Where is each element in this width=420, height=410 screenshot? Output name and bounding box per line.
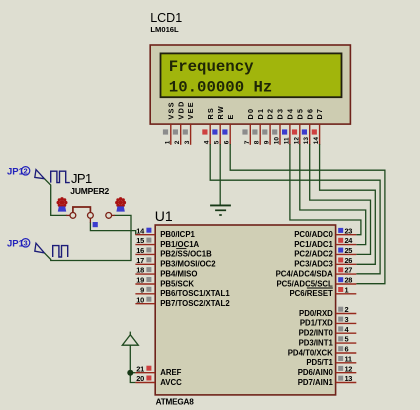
wire JP1(2) to jumper pin1: [44, 179, 66, 216]
U1 pin 11 PD5/T1: [306, 354, 356, 367]
U1 pin 9 PB6/TOSC1/XTAL1: [135, 285, 230, 298]
svg-text:PC5/ADC5/SCL: PC5/ADC5/SCL: [276, 279, 333, 288]
svg-text:10: 10: [274, 137, 281, 145]
svg-text:26: 26: [345, 256, 353, 265]
IC U1 ATMEGA8 value label: [156, 397, 195, 406]
svg-text:14: 14: [313, 137, 320, 145]
svg-text:D3: D3: [276, 108, 285, 120]
svg-text:20: 20: [136, 374, 144, 383]
svg-text:VDD: VDD: [176, 100, 185, 119]
svg-text:U1: U1: [155, 208, 173, 224]
U1 pin 6 PD4/T0/XCK: [288, 345, 357, 358]
IC U1 ATMEGA8 body: [155, 225, 335, 395]
svg-text:Frequency: Frequency: [169, 58, 254, 76]
LCD pin 2 VDD: [173, 100, 186, 144]
svg-text:D6: D6: [305, 108, 314, 120]
svg-text:19: 19: [136, 276, 144, 285]
svg-text:PD5/T1: PD5/T1: [306, 358, 333, 367]
svg-text:PD6/AIN0: PD6/AIN0: [298, 368, 334, 377]
svg-text:JP1: JP1: [71, 171, 92, 186]
U1 pin 15 PB1/OC1A: [135, 236, 199, 249]
svg-text:27: 27: [345, 266, 353, 275]
svg-text:23: 23: [345, 226, 353, 235]
svg-text:9: 9: [264, 140, 271, 144]
LCD pin 5 RW: [212, 105, 225, 145]
svg-text:3: 3: [345, 315, 349, 324]
LCD pin 9 D2: [262, 108, 275, 145]
U1 pin 25 PC2/ADC2: [294, 246, 356, 259]
LCD pin 4 RS: [202, 107, 215, 145]
U1 pin 4 PD2/INT0: [299, 325, 357, 338]
LCD pin 6 E: [222, 113, 235, 144]
svg-text:2: 2: [24, 167, 28, 176]
jumper pin marker flower right: [115, 197, 126, 212]
U1 pin 5 PD3/INT1: [299, 335, 357, 348]
U1 pin 23 PC0/ADC0: [294, 226, 356, 239]
svg-text:PB2/SS/OC1B: PB2/SS/OC1B: [160, 250, 212, 259]
wire D4: LCD pin11 to U1 pin23 PC0: [290, 144, 361, 235]
svg-text:PB6/TOSC1/XTAL1: PB6/TOSC1/XTAL1: [160, 289, 230, 298]
svg-text:10: 10: [136, 295, 144, 304]
U1 pin 28 PC5/ADC5/SCL: [276, 276, 356, 289]
svg-text:1: 1: [164, 140, 171, 144]
jumper pin 2 state square: [93, 222, 98, 227]
IC U1 reference label: [155, 208, 173, 224]
svg-text:25: 25: [345, 246, 353, 255]
U1 pin 24 PC1/ADC1: [294, 236, 356, 249]
svg-text:3: 3: [184, 140, 191, 144]
svg-text:D7: D7: [315, 108, 324, 120]
wire D6: LCD pin13 to U1 pin25 PC2: [310, 144, 371, 254]
wire jumper common to U1 pin14 PB0: [90, 223, 135, 235]
U1 pin 13 PD7/AIN1: [298, 374, 357, 387]
svg-text:D0: D0: [246, 108, 255, 120]
LCD pin 10 D3: [272, 108, 285, 145]
svg-text:16: 16: [136, 246, 144, 255]
svg-text:PB7/TOSC2/XTAL2: PB7/TOSC2/XTAL2: [160, 299, 230, 308]
LCD pin 3 VEE: [183, 101, 196, 145]
LCD LCD1 reference label: [150, 11, 182, 25]
svg-text:PD3/INT1: PD3/INT1: [299, 338, 334, 347]
svg-text:3: 3: [24, 239, 28, 248]
U1 pin 21 AREF: [135, 364, 181, 377]
svg-text:D2: D2: [266, 108, 275, 120]
svg-text:PC1/ADC1: PC1/ADC1: [294, 240, 333, 249]
svg-text:18: 18: [136, 266, 144, 275]
jumper pin 3 circle: [106, 213, 115, 219]
svg-text:13: 13: [303, 137, 310, 145]
svg-text:PD1/TXD: PD1/TXD: [300, 319, 333, 328]
terminal JP1(3) label: [7, 238, 30, 249]
LCD pin 12 D5: [292, 108, 305, 145]
U1 pin 1 PC6/RESET: [289, 285, 356, 298]
svg-text:5: 5: [214, 140, 221, 144]
svg-text:PC2/ADC2: PC2/ADC2: [294, 250, 333, 259]
terminal JP1(3) triangle: [35, 243, 45, 253]
svg-text:2: 2: [345, 305, 349, 314]
svg-text:VEE: VEE: [186, 101, 195, 119]
svg-text:13: 13: [345, 374, 353, 383]
svg-text:9: 9: [140, 285, 144, 294]
svg-text:PB0/ICP1: PB0/ICP1: [160, 230, 195, 239]
jumper JP1 reference label: [71, 171, 92, 186]
svg-text:PB3/MOSI/OC2: PB3/MOSI/OC2: [160, 260, 216, 269]
U1 pin 18 PB4/MISO: [135, 266, 197, 279]
LCD pin 13 D6: [302, 108, 315, 145]
wire JP1(3) to jumper pin3 via vertical riser: [44, 215, 131, 260]
wire D7: LCD pin14 to U1 pin26 PC3: [320, 144, 376, 264]
U1 pin 10 PB7/TOSC2/XTAL2: [135, 295, 230, 308]
LCD screen: [161, 53, 342, 97]
svg-text:24: 24: [345, 236, 354, 245]
svg-text:PB1/OC1A: PB1/OC1A: [160, 240, 199, 249]
jumper pin 2 circle (common): [88, 213, 94, 224]
U1 pin 26 PC3/ADC3: [294, 256, 356, 269]
svg-text:LCD1: LCD1: [150, 11, 182, 25]
wire RW to ground: [219, 144, 221, 205]
svg-text:17: 17: [136, 256, 144, 265]
U1 pin 27 PC4/ADC4/SDA: [276, 266, 357, 279]
LCD pin 8 D1: [252, 108, 264, 145]
U1 pin 2 PD0/RXD: [299, 305, 356, 318]
U1 pin 12 PD6/AIN0: [298, 364, 357, 377]
svg-text:VSS: VSS: [166, 101, 175, 119]
svg-text:D5: D5: [295, 108, 304, 120]
LCD pin 14 D7: [312, 108, 325, 145]
svg-text:1: 1: [345, 285, 349, 294]
svg-text:28: 28: [345, 276, 353, 285]
jumper pin marker flower left: [57, 197, 68, 212]
svg-text:11: 11: [345, 354, 352, 363]
jumper strap link pin1-pin2: [73, 207, 91, 213]
svg-text:5: 5: [345, 335, 349, 344]
wire power arrow to AREF and AVCC: [130, 345, 135, 382]
terminal JP1(2) label: [7, 166, 30, 177]
wire E: LCD pin6 to U1 pin28 PC5: [230, 144, 385, 284]
svg-text:PD2/INT0: PD2/INT0: [299, 329, 334, 338]
terminal JP1(2) triangle: [35, 170, 45, 179]
svg-text:8: 8: [254, 140, 261, 144]
svg-text:12: 12: [293, 137, 300, 145]
ground: [210, 205, 231, 215]
svg-text:14: 14: [136, 226, 145, 235]
U1 pin 16 PB2/SS/OC1B: [135, 246, 212, 259]
svg-text:21: 21: [136, 364, 144, 373]
JP1(2) pulse waveform glyph: [51, 171, 70, 182]
svg-text:PC3/ADC3: PC3/ADC3: [294, 260, 333, 269]
svg-text:RW: RW: [216, 105, 225, 119]
power terminal arrow: [122, 332, 138, 346]
svg-text:PD0/RXD: PD0/RXD: [299, 309, 333, 318]
LCD pin 1 VSS: [163, 101, 176, 145]
jumper pin 1 circle: [66, 213, 76, 219]
svg-text:PC4/ADC4/SDA: PC4/ADC4/SDA: [276, 269, 334, 278]
JP1(3) pulse waveform glyph: [53, 246, 68, 257]
svg-text:AVCC: AVCC: [160, 378, 182, 387]
svg-text:LM016L: LM016L: [150, 25, 179, 34]
LCD LCD1 body: [150, 45, 350, 124]
svg-text:10.00000 Hz: 10.00000 Hz: [169, 79, 273, 97]
svg-text:PB5/SCK: PB5/SCK: [160, 279, 194, 288]
svg-text:2: 2: [174, 140, 181, 144]
wire D5: LCD pin12 to U1 pin24 PC1: [300, 144, 366, 245]
svg-text:D4: D4: [286, 108, 295, 120]
U1 pin 3 PD1/TXD: [300, 315, 356, 328]
U1 pin 14 PB0/ICP1: [135, 226, 195, 239]
U1 pin 20 AVCC: [135, 374, 182, 387]
svg-text:D1: D1: [256, 108, 265, 120]
svg-text:7: 7: [244, 140, 251, 144]
svg-text:6: 6: [224, 140, 231, 144]
U1 pin 19 PB5/SCK: [135, 276, 194, 289]
svg-text:ATMEGA8: ATMEGA8: [156, 397, 195, 406]
LCD pin 7 D0: [242, 108, 255, 145]
svg-text:E: E: [226, 113, 235, 119]
svg-text:AREF: AREF: [160, 368, 181, 377]
svg-text:12: 12: [345, 364, 353, 373]
svg-text:PD4/T0/XCK: PD4/T0/XCK: [288, 348, 333, 357]
svg-text:6: 6: [345, 345, 349, 354]
U1 pin 17 PB3/MOSI/OC2: [135, 256, 216, 269]
svg-text:PD7/AIN1: PD7/AIN1: [298, 378, 334, 387]
svg-text:11: 11: [283, 137, 290, 144]
svg-text:15: 15: [136, 236, 144, 245]
svg-text:4: 4: [204, 140, 211, 144]
svg-text:PC6/RESET: PC6/RESET: [289, 289, 333, 298]
jumper JUMPER2 value label: [70, 186, 109, 196]
svg-text:RS: RS: [206, 107, 215, 120]
svg-text:JUMPER2: JUMPER2: [70, 186, 109, 196]
LCD LM016L value label: [150, 25, 179, 34]
svg-text:PC0/ADC0: PC0/ADC0: [294, 230, 333, 239]
svg-text:PB4/MISO: PB4/MISO: [160, 269, 197, 278]
wire RS: LCD pin4 to U1 pin27 PC4: [210, 144, 380, 274]
LCD pin 11 D4: [282, 108, 295, 145]
junction AREF node: [127, 370, 133, 376]
